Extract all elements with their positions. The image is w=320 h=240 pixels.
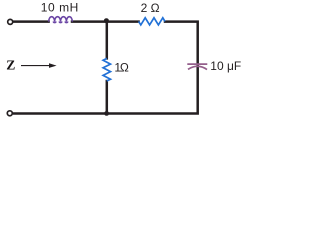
- svg-text:10 μF: 10 μF: [210, 59, 241, 73]
- svg-text:2 Ω: 2 Ω: [141, 1, 160, 15]
- svg-text:10 mH: 10 mH: [41, 1, 79, 15]
- svg-text:1Ω: 1Ω: [114, 60, 128, 74]
- svg-text:Z: Z: [6, 58, 15, 73]
